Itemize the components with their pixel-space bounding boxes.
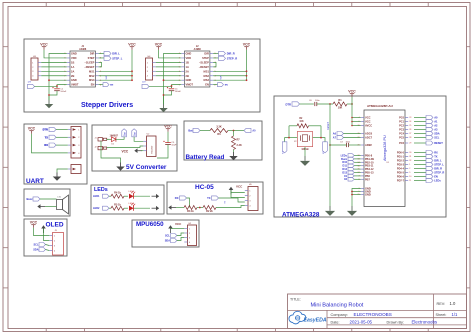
net flag EN (J2) (213, 84, 217, 86)
svg-text:SDA: SDA (434, 132, 440, 136)
wire LED2 to VCC arrow (134, 207, 150, 209)
svg-text:R3 1k: R3 1k (187, 210, 194, 213)
svg-text:SDA: SDA (165, 239, 170, 242)
svg-text:Buzz: Buzz (27, 197, 34, 201)
svg-text:MS1: MS1 (89, 69, 95, 73)
svg-text:SCL: SCL (434, 136, 440, 140)
module box Stepper Drivers (24, 39, 260, 112)
wire RX junction (187, 198, 190, 208)
ground arrow left (HC-05) (176, 207, 184, 209)
svg-text:DTR: DTR (285, 102, 291, 106)
svg-text:2A: 2A (186, 69, 189, 73)
svg-text:VMOT: VMOT (186, 83, 194, 87)
wire VCC to pin 4 (32, 134, 68, 153)
svg-text:MPU6050: MPU6050 (136, 221, 164, 228)
MCU ADC pins (361, 133, 364, 135)
title block dividers (433, 294, 435, 329)
svg-text:A4988: A4988 (79, 48, 87, 51)
net flag column PB (LEDs Buzz D10..X2) (348, 154, 354, 158)
svg-text:TX: TX (434, 155, 438, 159)
svg-text:24: 24 (409, 121, 411, 123)
wire RESET net vertical (329, 104, 331, 206)
net flag A7 (337, 136, 344, 140)
svg-text:GND: GND (71, 78, 77, 82)
capacitor C5 10uF (163, 140, 164, 142)
svg-text:ADC7: ADC7 (365, 136, 373, 140)
svg-text:ADC6: ADC6 (365, 132, 373, 136)
wire VCC to cap C5 (167, 132, 169, 143)
capacitor C 100uF (J2) (167, 87, 168, 89)
svg-text:PD3-3: PD3-3 (397, 164, 405, 167)
wire AREF cap (349, 144, 361, 146)
svg-text:A3: A3 (434, 128, 438, 132)
wire J1 to ground (107, 138, 109, 140)
svg-text:Atmega328 PU: Atmega328 PU (383, 135, 387, 161)
module box Battery Read (184, 121, 262, 160)
svg-text:Bat: Bat (188, 129, 192, 133)
svg-text:1B: 1B (186, 60, 189, 64)
wire R7 to ground (233, 150, 235, 153)
connector single pin (UART ground) (68, 165, 81, 174)
svg-text:1A: 1A (186, 65, 189, 69)
net flag EN (J1) (99, 84, 103, 86)
power flag VCC (UART) (28, 127, 36, 134)
svg-text:PC0: PC0 (399, 117, 404, 120)
resistor R5 1k (111, 206, 124, 210)
wires H4 to J2 coil pins (156, 61, 182, 63)
svg-text:MS2: MS2 (204, 74, 210, 78)
VCC output arrow of buck (134, 148, 142, 153)
svg-text:GND: GND (186, 52, 192, 56)
svg-text:A2: A2 (434, 124, 438, 128)
MCU reset pin PC6 (405, 142, 408, 144)
connector H4 motor header (146, 56, 156, 80)
wire R5 to LED (124, 207, 128, 209)
power flag VCC (left of J2) (155, 43, 163, 50)
wire LED1 to VCC arrow (134, 195, 150, 197)
svg-text:2: 2 (409, 168, 410, 170)
svg-text:PC2: PC2 (399, 125, 404, 128)
wire capacitor to ground (J1) (49, 91, 57, 100)
MCU right PD pins (405, 152, 408, 154)
svg-text:Bat: Bat (133, 132, 136, 136)
svg-text:STEP_L: STEP_L (434, 163, 444, 167)
svg-text:DIR_L: DIR_L (434, 159, 442, 163)
svg-text:9: 9 (409, 172, 410, 174)
svg-text:2.2K: 2.2K (237, 144, 242, 147)
ground symbol (reset net) (325, 206, 335, 216)
svg-text:32: 32 (409, 160, 411, 162)
svg-text:EN: EN (91, 83, 95, 87)
frame row ticks left (3, 46, 8, 48)
wire DTR to C6 (300, 103, 314, 105)
svg-text:RX: RX (44, 143, 48, 147)
svg-text:25: 25 (409, 125, 411, 127)
power flag VCC (left of J1) (40, 43, 48, 50)
svg-text:~RESET: ~RESET (84, 65, 95, 69)
wire SDA to MPU pin3 (177, 238, 184, 241)
module box ATMEGA328 (274, 96, 446, 217)
MCU U1 ATmega328P-AU body (364, 104, 405, 207)
svg-text:VCC: VCC (243, 43, 251, 47)
svg-text:~SLEEP: ~SLEEP (84, 60, 94, 64)
svg-text:1B: 1B (71, 60, 74, 64)
svg-text:DIR_R: DIR_R (434, 167, 442, 171)
wires H3 to J1 coil pins (41, 61, 67, 63)
svg-text:STEP: STEP (202, 56, 209, 60)
svg-text:PC1: PC1 (399, 121, 404, 124)
wire buzzer low side (45, 206, 57, 208)
svg-text:PC6: PC6 (399, 142, 404, 145)
wire crystal ground (304, 147, 306, 156)
svg-text:27: 27 (409, 133, 411, 135)
wire capacitor to ground (J2) (164, 91, 172, 104)
net flag Bat2 (vertical) (132, 129, 137, 137)
svg-text:R2 2k: R2 2k (206, 210, 213, 213)
wire DTR to pin 1 (56, 129, 68, 131)
svg-text:VDD: VDD (186, 56, 192, 60)
svg-text:1.0: 1.0 (450, 301, 456, 306)
module box UART (24, 124, 87, 184)
svg-text:OLED: OLED (46, 221, 64, 228)
ground symbol (crystal) (300, 156, 310, 166)
frame row ticks right (467, 46, 471, 48)
net label sleep/reset tie (J1) (99, 62, 102, 66)
power flag VCC (5V converter output) (164, 125, 172, 132)
net flag X1 (vertical) (282, 142, 287, 154)
svg-text:1A: 1A (71, 65, 74, 69)
power arrow VCC (HC-05) (229, 187, 234, 195)
svg-text:Date:: Date: (331, 320, 340, 324)
svg-text:1/1: 1/1 (452, 312, 458, 317)
wire ground pin (57, 169, 68, 173)
svg-text:100uF: 100uF (60, 91, 67, 93)
svg-text:Stepper Drivers: Stepper Drivers (81, 102, 133, 109)
wire SDA to pin4 (46, 250, 50, 251)
svg-text:RX: RX (175, 196, 179, 200)
connector H5 bluetooth header (245, 184, 258, 211)
wire RX to pin 3 (56, 144, 68, 146)
svg-text:REV:: REV: (437, 302, 446, 306)
svg-text:VMOT: VMOT (71, 83, 79, 87)
svg-text:A0: A0 (434, 116, 438, 120)
wire VMOT pin of J2 to capacitor (149, 86, 172, 88)
wire VCC to pin1 (231, 190, 245, 193)
net flag X2 (vertical) (323, 142, 328, 154)
crystal X2 16MHz (294, 132, 313, 151)
stepper driver IC J1 A4988 (64, 45, 102, 87)
wire Buzz to buzzer (40, 198, 57, 200)
svg-text:GND: GND (365, 193, 371, 197)
svg-text:DIR: DIR (90, 52, 95, 56)
svg-text:AVCC: AVCC (365, 124, 372, 128)
buzzer LS1 speaker symbol (57, 195, 69, 214)
svg-text:SDA: SDA (33, 248, 38, 251)
wire crystal right branch (321, 126, 325, 142)
svg-text:STEP: STEP (88, 56, 95, 60)
wire VCC rail to MS pins of J2 (246, 50, 248, 80)
wire J2 to buck (107, 146, 144, 148)
svg-text:PD6-6: PD6-6 (397, 176, 405, 179)
wire divider down (233, 131, 235, 137)
power flag VCC (logic, J2) (243, 43, 251, 50)
wire C6 to R1 (317, 103, 333, 105)
svg-text:Mini Balancing Robot: Mini Balancing Robot (311, 303, 364, 309)
svg-text:DIR_L: DIR_L (112, 52, 120, 56)
module box OLED (24, 219, 67, 256)
svg-text:MS2: MS2 (89, 74, 95, 78)
svg-text:MS3: MS3 (89, 78, 95, 82)
frame column ticks top (45, 3, 47, 7)
wire GND pins to ground (352, 189, 361, 207)
svg-text:VCC: VCC (122, 149, 129, 153)
svg-text:31: 31 (409, 156, 411, 158)
svg-text:VCC: VCC (155, 43, 163, 47)
svg-text:VCC: VCC (236, 185, 243, 189)
wire arrow to OLED pin2 (44, 229, 50, 241)
wire GND pins of J1 to ground rail (49, 54, 67, 101)
svg-text:STEP_R: STEP_R (227, 56, 238, 60)
svg-text:STEP_L: STEP_L (112, 56, 123, 60)
svg-text:PD5-5: PD5-5 (397, 172, 405, 175)
wire VCC rail to power pins (351, 97, 353, 126)
svg-text:Battery Read: Battery Read (186, 154, 225, 161)
wire lower GND pin of J1 (49, 79, 67, 81)
resistor R2 2k (HC-05) (203, 206, 216, 210)
VCC arrow (LED2) (152, 206, 160, 211)
svg-text:ELECTRONOOBS: ELECTRONOOBS (354, 312, 392, 317)
power flag VCC (OLED) (30, 221, 38, 228)
svg-text:RX: RX (434, 151, 438, 155)
svg-text:1N4007: 1N4007 (110, 134, 119, 137)
buck converter module U2 (143, 134, 156, 157)
VCC arrow (OLED) (41, 225, 46, 233)
MCU PB pins (361, 155, 364, 157)
svg-text:EN: EN (434, 175, 438, 179)
svg-text:EN: EN (205, 83, 209, 87)
wire VCC to MPU pin1 (171, 228, 185, 230)
svg-text:Drawn By:: Drawn By: (387, 320, 405, 324)
wire diode to Bat flag (116, 137, 124, 140)
svg-text:ATMEGA328: ATMEGA328 (282, 212, 320, 219)
svg-text:TITLE:: TITLE: (290, 297, 301, 301)
svg-text:26: 26 (409, 129, 411, 131)
junction node battery divider (233, 130, 235, 132)
svg-text:DIR: DIR (204, 52, 209, 56)
wire cap C5 to ground rail (157, 145, 168, 159)
EasyEDA logo (289, 311, 327, 324)
svg-text:~RESET: ~RESET (199, 65, 210, 69)
svg-text:EN: EN (225, 85, 228, 87)
wire GND pins of J2 to ground rail (164, 54, 182, 105)
stepper driver IC J2 A4988 (179, 45, 217, 87)
svg-text:16MHz: 16MHz (301, 149, 309, 151)
svg-text:2B: 2B (71, 74, 74, 78)
wire VCC to VDD pin of J2 (159, 50, 182, 58)
svg-text:PD0-0: PD0-0 (397, 152, 405, 155)
svg-text:VCC: VCC (164, 125, 172, 129)
wire Bat to R6 (200, 130, 210, 132)
svg-text:STEP_R: STEP_R (434, 171, 444, 175)
VCC arrow (LED1) (152, 194, 160, 199)
wire buck input from Bat2 (134, 137, 143, 142)
connector J1 battery plug (95, 137, 107, 141)
svg-text:VCC: VCC (40, 43, 48, 47)
wire SCL to pin3 (46, 245, 50, 246)
svg-text:EN: EN (110, 85, 113, 87)
frame column ticks bottom (45, 329, 47, 332)
wire VCC rail to MS pins of J1 (131, 50, 133, 80)
svg-text:Company:: Company: (331, 313, 348, 317)
svg-text:23: 23 (409, 117, 411, 119)
wire LED2 to resistor R5 (109, 207, 111, 209)
MCU left power pins VCC VCC AVCC (361, 117, 364, 119)
svg-text:Electronoobs: Electronoobs (412, 320, 438, 325)
net flag A0 (battery read) (244, 128, 256, 132)
net flag Bat (vertical) (122, 129, 127, 137)
svg-text:UART: UART (26, 178, 44, 185)
svg-text:3.3K: 3.3K (216, 126, 221, 129)
wire R2 to pin4 (216, 206, 245, 208)
wire VMOT pin of J1 to capacitor (35, 86, 58, 88)
net flag RX (UART) (44, 143, 56, 147)
svg-text:PD2-2: PD2-2 (397, 160, 405, 163)
svg-text:SLP: SLP (106, 75, 108, 79)
connector J3 OLED header (49, 230, 63, 255)
svg-text:PC3: PC3 (399, 129, 404, 132)
svg-text:MS3: MS3 (204, 78, 210, 82)
svg-text:DTR: DTR (42, 128, 48, 132)
svg-text:MS1: MS1 (204, 69, 210, 73)
net label sleep/reset tie (J2) (213, 62, 216, 66)
svg-text:VCC: VCC (175, 222, 182, 226)
svg-text:GND: GND (71, 52, 77, 56)
resistor R6 3.3K (210, 129, 228, 133)
resistor R1 10K (333, 102, 347, 106)
svg-text:PD7-7: PD7-7 (397, 180, 405, 183)
svg-text:ATMEGA328P-AU: ATMEGA328P-AU (367, 104, 394, 108)
svg-text:R5 1k: R5 1k (114, 203, 121, 206)
wire A6 to ADC6 (344, 133, 361, 135)
power flag VCC (MCU) (348, 90, 356, 97)
wire A7 to ADC7 (344, 137, 361, 139)
MCU GND pins (361, 188, 364, 190)
wire SCL to MPU pin2 (177, 233, 184, 236)
svg-text:10K: 10K (299, 121, 304, 123)
wire LED1 to resistor R4 (109, 195, 111, 197)
svg-text:SCL: SCL (165, 234, 170, 237)
ground symbol (J2) (159, 104, 167, 112)
svg-text:VCC: VCC (128, 43, 136, 47)
svg-text:VCC: VCC (365, 116, 371, 120)
svg-text:Sheet:: Sheet: (436, 313, 447, 317)
resistor R4 1k (111, 194, 124, 198)
svg-text:Mini360: Mini360 (151, 145, 153, 153)
svg-text:29: 29 (409, 143, 411, 145)
wire lower GND pin of J2 (164, 79, 182, 81)
connector J2 battery plug (95, 146, 107, 149)
svg-text:2A: 2A (71, 69, 74, 73)
MCU AREF pin (361, 144, 364, 146)
svg-text:PD1-1: PD1-1 (397, 156, 405, 159)
svg-text:10: 10 (409, 176, 411, 178)
net flag RESET (MCU) (426, 141, 443, 145)
power flag VCC (logic, J1) (128, 43, 136, 50)
connector H1 UART header (68, 127, 81, 159)
svg-text:10uF: 10uF (171, 145, 177, 147)
module box MPU6050 (132, 220, 199, 247)
ground symbol (5V converter) (116, 163, 124, 171)
svg-text:VCC: VCC (28, 127, 36, 131)
svg-text:VCC: VCC (365, 120, 371, 124)
diode D1 1N4007 (107, 134, 119, 145)
svg-text:~SLEEP: ~SLEEP (199, 60, 209, 64)
svg-text:VCC: VCC (30, 221, 38, 225)
resistor R7 2.2K (232, 136, 236, 150)
svg-text:2B: 2B (186, 74, 189, 78)
svg-text:LED2: LED2 (93, 207, 100, 210)
ground symbol (J1) (45, 100, 53, 108)
net flag DIR_L (99, 53, 104, 55)
wire TX flag to pin3 (219, 198, 245, 202)
svg-text:2021-05-05: 2021-05-05 (350, 320, 373, 325)
svg-text:R4 1k: R4 1k (114, 191, 121, 194)
net flag STEP_R (213, 57, 218, 59)
svg-text:GND: GND (186, 78, 192, 82)
title block outline (288, 294, 467, 329)
svg-text:VCC: VCC (348, 90, 356, 94)
ground symbol (battery read) (229, 152, 237, 160)
wire R4 to LED (124, 195, 128, 197)
wire buck out (141, 150, 143, 152)
module box LEDs (91, 185, 164, 214)
wire R3 R2 junction (197, 207, 203, 209)
svg-text:LED1: LED1 (93, 195, 100, 198)
svg-text:11: 11 (409, 180, 411, 182)
svg-text:28: 28 (409, 137, 411, 139)
module box HC-05 (167, 182, 263, 214)
MCU right PC pins (405, 117, 408, 119)
module box Buzzer (24, 189, 70, 216)
connector H3 motor header (31, 56, 41, 80)
wire R1 to VCC rail (347, 103, 352, 105)
svg-text:SCL: SCL (34, 243, 39, 246)
net flag DIR_R (213, 53, 218, 55)
svg-text:VDD: VDD (71, 56, 77, 60)
svg-text:RESET: RESET (327, 121, 330, 130)
svg-text:30: 30 (409, 152, 411, 154)
resistor R3 1k (HC-05) (184, 206, 197, 210)
svg-text:A1: A1 (434, 120, 438, 124)
net flag TX (UART) (45, 135, 56, 139)
svg-text:PD4-4: PD4-4 (397, 168, 405, 171)
svg-text:PB7: PB7 (365, 178, 370, 181)
svg-text:TX: TX (45, 135, 49, 139)
svg-text:SLP: SLP (221, 75, 223, 79)
wire R6 to A0 flag (228, 130, 244, 132)
svg-text:A4988: A4988 (194, 48, 202, 51)
connector H2 MPU header (184, 223, 196, 246)
net flag A6 (337, 132, 344, 136)
net flag STEP_L (99, 57, 104, 59)
svg-text:100uF: 100uF (175, 91, 182, 93)
svg-text:LEDs: LEDs (94, 187, 108, 193)
svg-text:AREF: AREF (365, 143, 372, 147)
svg-text:5V Converter: 5V Converter (126, 164, 167, 171)
wire VCC to VDD pin of J1 (44, 50, 67, 58)
svg-text:PC4: PC4 (399, 133, 404, 136)
net flag DTR (43, 127, 56, 131)
